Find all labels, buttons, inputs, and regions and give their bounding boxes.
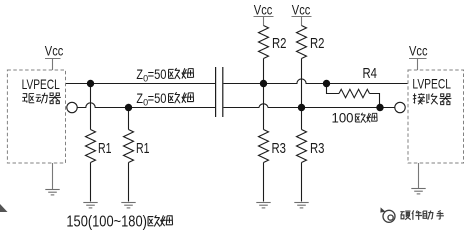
- svg-text:R2: R2: [310, 36, 325, 52]
- svg-text:LVPECL: LVPECL: [412, 75, 451, 91]
- svg-text:Vcc: Vcc: [254, 1, 272, 17]
- svg-text:R3: R3: [310, 141, 325, 157]
- svg-text:Vcc: Vcc: [45, 42, 64, 58]
- svg-text:150(100~180): 150(100~180): [66, 214, 146, 231]
- svg-text:LVPECL: LVPECL: [22, 76, 60, 92]
- svg-text:R2: R2: [272, 36, 287, 52]
- svg-text:100: 100: [332, 110, 354, 126]
- svg-text:R1: R1: [98, 141, 112, 157]
- svg-text:Vcc: Vcc: [409, 43, 428, 59]
- svg-text:=50: =50: [148, 66, 167, 82]
- svg-text:R4: R4: [363, 66, 378, 82]
- svg-text:R1: R1: [136, 141, 150, 157]
- svg-text:=50: =50: [148, 90, 167, 106]
- svg-text:R3: R3: [272, 141, 287, 157]
- svg-text:Vcc: Vcc: [292, 1, 311, 17]
